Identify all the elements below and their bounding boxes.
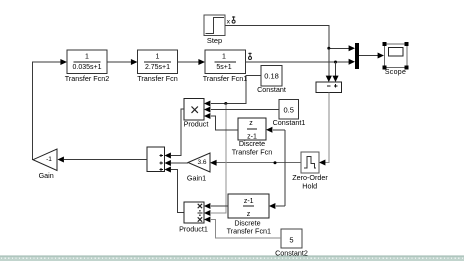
wire Sum1 output to Gain xyxy=(58,157,148,163)
product Product xyxy=(184,99,209,129)
wire Gain1 to Sum1 input2 xyxy=(165,160,189,166)
wire TF to TF1 xyxy=(178,59,206,65)
sum block Sum1 xyxy=(147,147,165,172)
transfer function TF2 xyxy=(65,50,109,83)
gain Gain1 3.6 xyxy=(187,153,210,182)
constant Constant 0.18 xyxy=(257,66,286,95)
svg-text:-1: -1 xyxy=(46,156,52,163)
wire Sum2 output to ZOH xyxy=(319,93,329,166)
svg-text:z: z xyxy=(247,211,251,218)
signal label glyph on TF1 output xyxy=(248,53,251,60)
junction on TF1 wire xyxy=(334,61,337,64)
discrete transfer fcn DTF1 (z-1/z) xyxy=(227,194,271,236)
svg-text:1: 1 xyxy=(222,53,226,60)
svg-text:5s+1: 5s+1 xyxy=(216,64,231,71)
svg-text:Product1: Product1 xyxy=(179,224,208,233)
svg-text:Transfer Fcn1: Transfer Fcn1 xyxy=(203,74,247,83)
svg-text:0.035s+1: 0.035s+1 xyxy=(73,64,102,71)
transfer function TF xyxy=(137,50,177,83)
svg-text:Transfer Fcn2: Transfer Fcn2 xyxy=(65,74,109,83)
wire Mux to Scope xyxy=(359,53,384,59)
wire Product output to Sum1 input1 xyxy=(165,109,185,159)
wire to Discrete Transfer Fcn input xyxy=(266,127,285,133)
svg-text:x: x xyxy=(227,19,231,26)
svg-text:2.75s+1: 2.75s+1 xyxy=(145,64,170,71)
junction on step wire xyxy=(327,47,330,50)
svg-text:0.18: 0.18 xyxy=(264,72,279,81)
svg-text:Transfer Fcn: Transfer Fcn xyxy=(137,74,177,83)
svg-text:1: 1 xyxy=(156,53,160,60)
junction on Constant-Product wire xyxy=(224,102,227,105)
svg-text:3.6: 3.6 xyxy=(197,159,206,166)
svg-text:Constant: Constant xyxy=(257,85,286,94)
gain Gain -1 xyxy=(33,149,57,180)
transfer function TF1 xyxy=(203,50,247,83)
product Product1 xyxy=(179,202,208,233)
constant Constant1 0.5 xyxy=(273,100,306,128)
svg-text:Transfer Fcn: Transfer Fcn xyxy=(232,148,272,157)
block Step xyxy=(204,15,225,45)
wire Gain to Transfer Fcn2 xyxy=(33,59,68,160)
wire Constant2 to Product1 input3 xyxy=(204,217,281,239)
signal label x-hat on step wire xyxy=(227,16,236,25)
wire DTF output to Product input3 xyxy=(204,113,238,130)
net feeding discrete blocks (vertical) xyxy=(284,130,286,206)
svg-text:Hold: Hold xyxy=(302,181,317,190)
svg-text:0.5: 0.5 xyxy=(283,105,293,114)
svg-text:Step: Step xyxy=(207,36,222,45)
svg-text:Constant1: Constant1 xyxy=(273,118,306,127)
wire TF2 to TF xyxy=(107,59,138,65)
wire Constant to Product input1 xyxy=(204,76,261,107)
sum block Sum2 xyxy=(316,82,342,93)
svg-text:Product: Product xyxy=(184,119,209,128)
svg-text:z-1: z-1 xyxy=(244,198,254,205)
discrete transfer fcn DTF (z/z-1) xyxy=(232,118,272,157)
wire Constant1 to Product input2 xyxy=(204,107,279,113)
wire branch TF1 to Sum2 plus input xyxy=(332,62,338,82)
wire branch to Product1 input2 xyxy=(204,104,226,217)
wire Product1 output to Sum1 input3 xyxy=(165,167,185,213)
mux Mux xyxy=(355,43,359,69)
constant Constant2 5 xyxy=(275,229,308,257)
zero-order hold ZOH xyxy=(292,152,328,190)
wire branch step to Sum2 minus input xyxy=(326,48,332,82)
svg-text:z: z xyxy=(249,120,253,127)
wire ZOH to Gain1 xyxy=(210,160,301,166)
svg-text:Gain1: Gain1 xyxy=(187,173,206,182)
wire TF1 to Mux input2 xyxy=(246,59,356,65)
scope Scope xyxy=(383,42,409,76)
svg-text:Transfer Fcn1: Transfer Fcn1 xyxy=(227,227,271,236)
junction on ZOH-Gain1 wire xyxy=(274,161,277,164)
svg-text:5: 5 xyxy=(289,235,293,244)
svg-text:1: 1 xyxy=(85,53,89,60)
svg-text:Gain: Gain xyxy=(39,171,54,180)
wire to Discrete Transfer Fcn1 input xyxy=(269,203,285,209)
svg-text:Scope: Scope xyxy=(385,69,406,76)
wire Step to Mux input1 xyxy=(225,26,355,52)
taskbar strip at bottom xyxy=(0,256,464,261)
wire DTF1 output to Product1 input1 xyxy=(204,203,228,209)
